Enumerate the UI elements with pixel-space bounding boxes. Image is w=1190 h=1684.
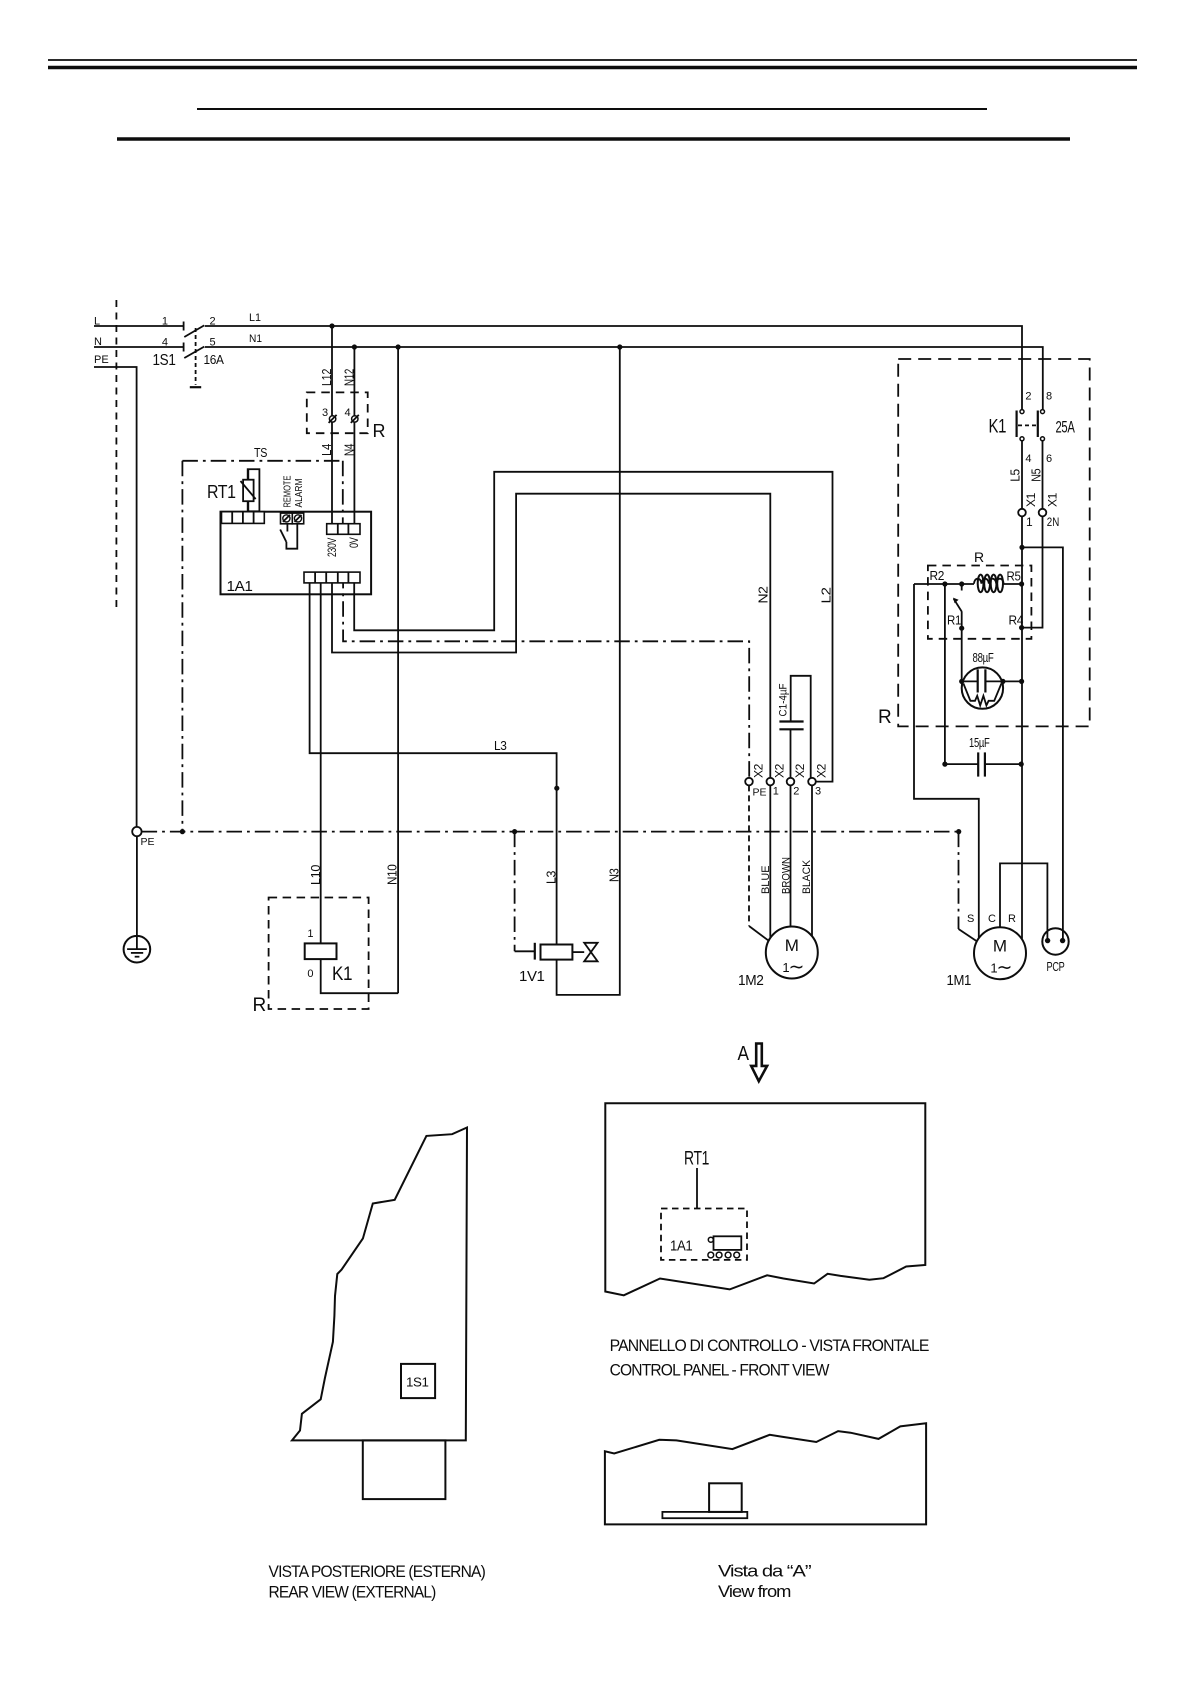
svg-text:1: 1	[773, 786, 779, 798]
chain link 1A1 to X2-PE	[343, 583, 749, 778]
svg-text:2: 2	[793, 786, 799, 798]
svg-text:N10: N10	[385, 864, 400, 885]
svg-text:8: 8	[1046, 391, 1052, 403]
svg-text:6: 6	[1046, 453, 1052, 465]
svg-text:R5: R5	[1007, 569, 1021, 584]
svg-text:X2: X2	[815, 763, 829, 778]
solenoid valve 1V1	[519, 943, 598, 985]
svg-text:1: 1	[1026, 515, 1033, 529]
pressure cutout PCP	[1042, 928, 1068, 974]
wire K1 coil to N10	[321, 959, 398, 993]
thermostat location box	[661, 1209, 747, 1260]
svg-text:K1: K1	[332, 964, 352, 985]
svg-text:0: 0	[307, 968, 313, 980]
svg-text:View from: View from	[718, 1582, 791, 1601]
svg-text:BLUE: BLUE	[760, 866, 772, 895]
junction N1/N10	[396, 344, 401, 349]
wire L2 (1A1 out 5 to X2-3)	[354, 472, 833, 782]
svg-text:2N: 2N	[1047, 515, 1060, 529]
control panel front view outline	[605, 1103, 925, 1295]
earth conductor	[136, 836, 138, 949]
svg-text:R: R	[373, 421, 386, 441]
connector X1	[1018, 492, 1059, 529]
switch 1S1 location	[401, 1364, 435, 1398]
wire N incoming	[94, 346, 184, 348]
wire X1-1 down to R5 / motor R	[1021, 516, 1023, 938]
RT1 leader	[684, 1149, 709, 1209]
junction N1/N3	[617, 344, 622, 349]
wire L3 (1A1 out 1 to valve)	[310, 583, 559, 945]
wire R1 to start capacitor	[961, 628, 963, 681]
svg-text:X1: X1	[1024, 492, 1038, 507]
svg-text:C1-4µF: C1-4µF	[778, 683, 790, 716]
motor wires to 1M2	[749, 785, 813, 941]
junction L1/L12	[329, 323, 334, 328]
svg-text:L4: L4	[319, 444, 334, 456]
svg-text:S: S	[967, 913, 974, 925]
connector R (L12/N12 plug)	[307, 392, 386, 441]
junction chain/TS	[180, 829, 185, 834]
svg-text:∼: ∼	[789, 957, 805, 978]
wire L5	[1007, 441, 1022, 509]
svg-text:X2: X2	[752, 763, 766, 778]
terminal block 230V/0V	[325, 524, 361, 557]
svg-text:3: 3	[815, 786, 821, 798]
svg-text:∼: ∼	[997, 958, 1013, 979]
wire X1-2N down to R4	[1022, 516, 1043, 627]
wire N1	[205, 347, 1043, 410]
contactor K1 contacts	[989, 391, 1076, 465]
svg-text:1M2: 1M2	[738, 972, 764, 989]
TS boundary (chain line)	[182, 445, 342, 832]
svg-text:TS: TS	[254, 445, 268, 460]
svg-text:15µF: 15µF	[969, 735, 990, 750]
wire L incoming	[94, 325, 184, 327]
rear view outline	[292, 1128, 467, 1441]
svg-text:N2: N2	[756, 586, 771, 603]
wire N5	[1029, 441, 1044, 509]
svg-text:3: 3	[322, 407, 328, 419]
svg-text:0V: 0V	[347, 537, 361, 548]
svg-text:R: R	[253, 995, 266, 1016]
run capacitor 15uF	[942, 735, 1024, 777]
junction N1/N12	[352, 344, 357, 349]
svg-text:RT1: RT1	[684, 1149, 709, 1170]
svg-text:PE: PE	[94, 354, 109, 366]
svg-text:X2: X2	[793, 763, 807, 778]
motor 1M2	[738, 927, 818, 990]
svg-text:R: R	[1008, 913, 1016, 925]
mounting bracket	[363, 1440, 446, 1499]
svg-text:C: C	[988, 913, 996, 925]
svg-text:1A1: 1A1	[670, 1238, 692, 1255]
svg-text:4: 4	[345, 407, 351, 419]
svg-text:88µF: 88µF	[973, 650, 994, 665]
svg-text:L5: L5	[1007, 469, 1022, 482]
svg-text:25A: 25A	[1056, 418, 1076, 437]
thermostat seen in view A	[662, 1483, 747, 1518]
junction on L3 riser	[554, 786, 559, 791]
svg-text:N3: N3	[606, 868, 621, 882]
connector X2	[745, 763, 828, 798]
relay contact R1	[953, 584, 964, 631]
svg-text:Vista da “A”: Vista da “A”	[718, 1562, 812, 1581]
svg-text:L1: L1	[249, 312, 261, 324]
svg-text:CONTROL PANEL - FRONT VIEW: CONTROL PANEL - FRONT VIEW	[610, 1361, 830, 1380]
svg-text:PE: PE	[141, 836, 155, 848]
svg-text:N12: N12	[342, 369, 357, 386]
svg-text:K1: K1	[989, 417, 1007, 438]
svg-text:PE: PE	[753, 787, 767, 799]
header rules	[48, 60, 1137, 139]
relay coil (R2-R5)	[974, 575, 1004, 593]
svg-text:A: A	[738, 1043, 750, 1065]
svg-text:R1: R1	[947, 613, 961, 628]
junction to PCP branch	[1019, 545, 1024, 550]
capacitor C1 4uF	[778, 676, 811, 778]
svg-text:1A1: 1A1	[227, 578, 253, 595]
svg-text:VISTA POSTERIORE (ESTERNA): VISTA POSTERIORE (ESTERNA)	[269, 1562, 486, 1581]
svg-text:R: R	[878, 707, 891, 728]
svg-text:L3: L3	[544, 871, 559, 884]
svg-text:1: 1	[162, 316, 168, 328]
wire N2 (1A1 out 3 to X2-1)	[332, 494, 771, 778]
svg-text:1S1: 1S1	[153, 352, 176, 369]
svg-text:X2: X2	[773, 763, 787, 778]
svg-text:RT1: RT1	[207, 482, 236, 502]
svg-text:REAR VIEW (EXTERNAL): REAR VIEW (EXTERNAL)	[269, 1583, 436, 1602]
svg-text:BLACK: BLACK	[801, 859, 813, 894]
earth symbol	[124, 936, 151, 963]
control unit 1A1	[221, 512, 372, 595]
thermistor RT1	[207, 469, 259, 512]
svg-text:M: M	[785, 936, 799, 955]
svg-text:PANNELLO DI CONTROLLO - VISTA: PANNELLO DI CONTROLLO - VISTA FRONTALE	[610, 1336, 930, 1355]
svg-text:230V: 230V	[325, 538, 339, 557]
svg-text:1S1: 1S1	[406, 1375, 429, 1390]
svg-text:REMOTE: REMOTE	[282, 475, 293, 507]
svg-text:2: 2	[1025, 391, 1031, 403]
svg-text:4: 4	[162, 337, 168, 349]
chain to solenoid valve	[514, 832, 516, 952]
switch 1S1	[153, 316, 225, 388]
svg-text:4: 4	[1025, 453, 1031, 465]
svg-text:N5: N5	[1029, 469, 1044, 482]
svg-text:L3: L3	[494, 738, 507, 753]
view A outline	[605, 1423, 926, 1524]
relay box R around K1 coil	[253, 898, 369, 1017]
section arrow A	[738, 1043, 768, 1081]
protective earth chain bus	[142, 831, 959, 833]
svg-text:L10: L10	[308, 865, 323, 885]
svg-text:ALARM: ALARM	[294, 479, 305, 508]
PE terminal circle	[132, 827, 154, 848]
svg-text:R: R	[974, 549, 984, 565]
svg-text:X1: X1	[1045, 492, 1059, 507]
compressor unit boundary R (big dashed box)	[878, 359, 1090, 728]
wire L1	[205, 326, 1022, 410]
wire N3 (N1 to valve return)	[557, 347, 622, 995]
wire R4 junction	[1019, 625, 1024, 630]
svg-text:N4: N4	[342, 444, 357, 456]
svg-text:16A: 16A	[204, 352, 225, 367]
terminal row outputs (5 poles)	[304, 572, 360, 583]
remote alarm screw terminals	[281, 475, 306, 524]
wire motor C to PCP	[1000, 863, 1047, 939]
start device 88uF (PTC + cap in circle)	[959, 650, 1024, 709]
wire N12	[353, 347, 355, 524]
terminal row RT1 (4 poles)	[222, 512, 265, 524]
alarm contact	[280, 524, 297, 549]
motor 1M1	[947, 913, 1027, 989]
svg-text:M: M	[993, 937, 1007, 956]
relay wiring	[914, 568, 1024, 938]
junction chain/valve	[512, 829, 517, 834]
wire PE incoming	[94, 367, 137, 827]
wire L12	[331, 326, 333, 524]
mains cable boundary (dashed)	[115, 300, 117, 612]
svg-text:BROWN: BROWN	[780, 857, 792, 894]
wire PCP branch	[1022, 547, 1063, 939]
contactor coil K1	[305, 928, 352, 985]
svg-text:1M1: 1M1	[947, 972, 972, 989]
svg-text:L12: L12	[319, 369, 334, 386]
svg-text:1: 1	[307, 928, 313, 940]
svg-text:R2: R2	[930, 568, 945, 583]
starting relay box R (small dashed box)	[928, 549, 1032, 639]
wire N10 (N1 to K1 coil return)	[385, 347, 400, 993]
wire L10 (1A1 out 2 to K1 coil)	[308, 583, 323, 944]
junction chain/1M1	[956, 829, 961, 834]
svg-text:L2: L2	[819, 587, 834, 603]
svg-text:N1: N1	[249, 333, 262, 345]
chain to 1M1 frame	[959, 832, 977, 942]
svg-text:PCP: PCP	[1047, 960, 1065, 974]
svg-text:1V1: 1V1	[519, 968, 545, 985]
